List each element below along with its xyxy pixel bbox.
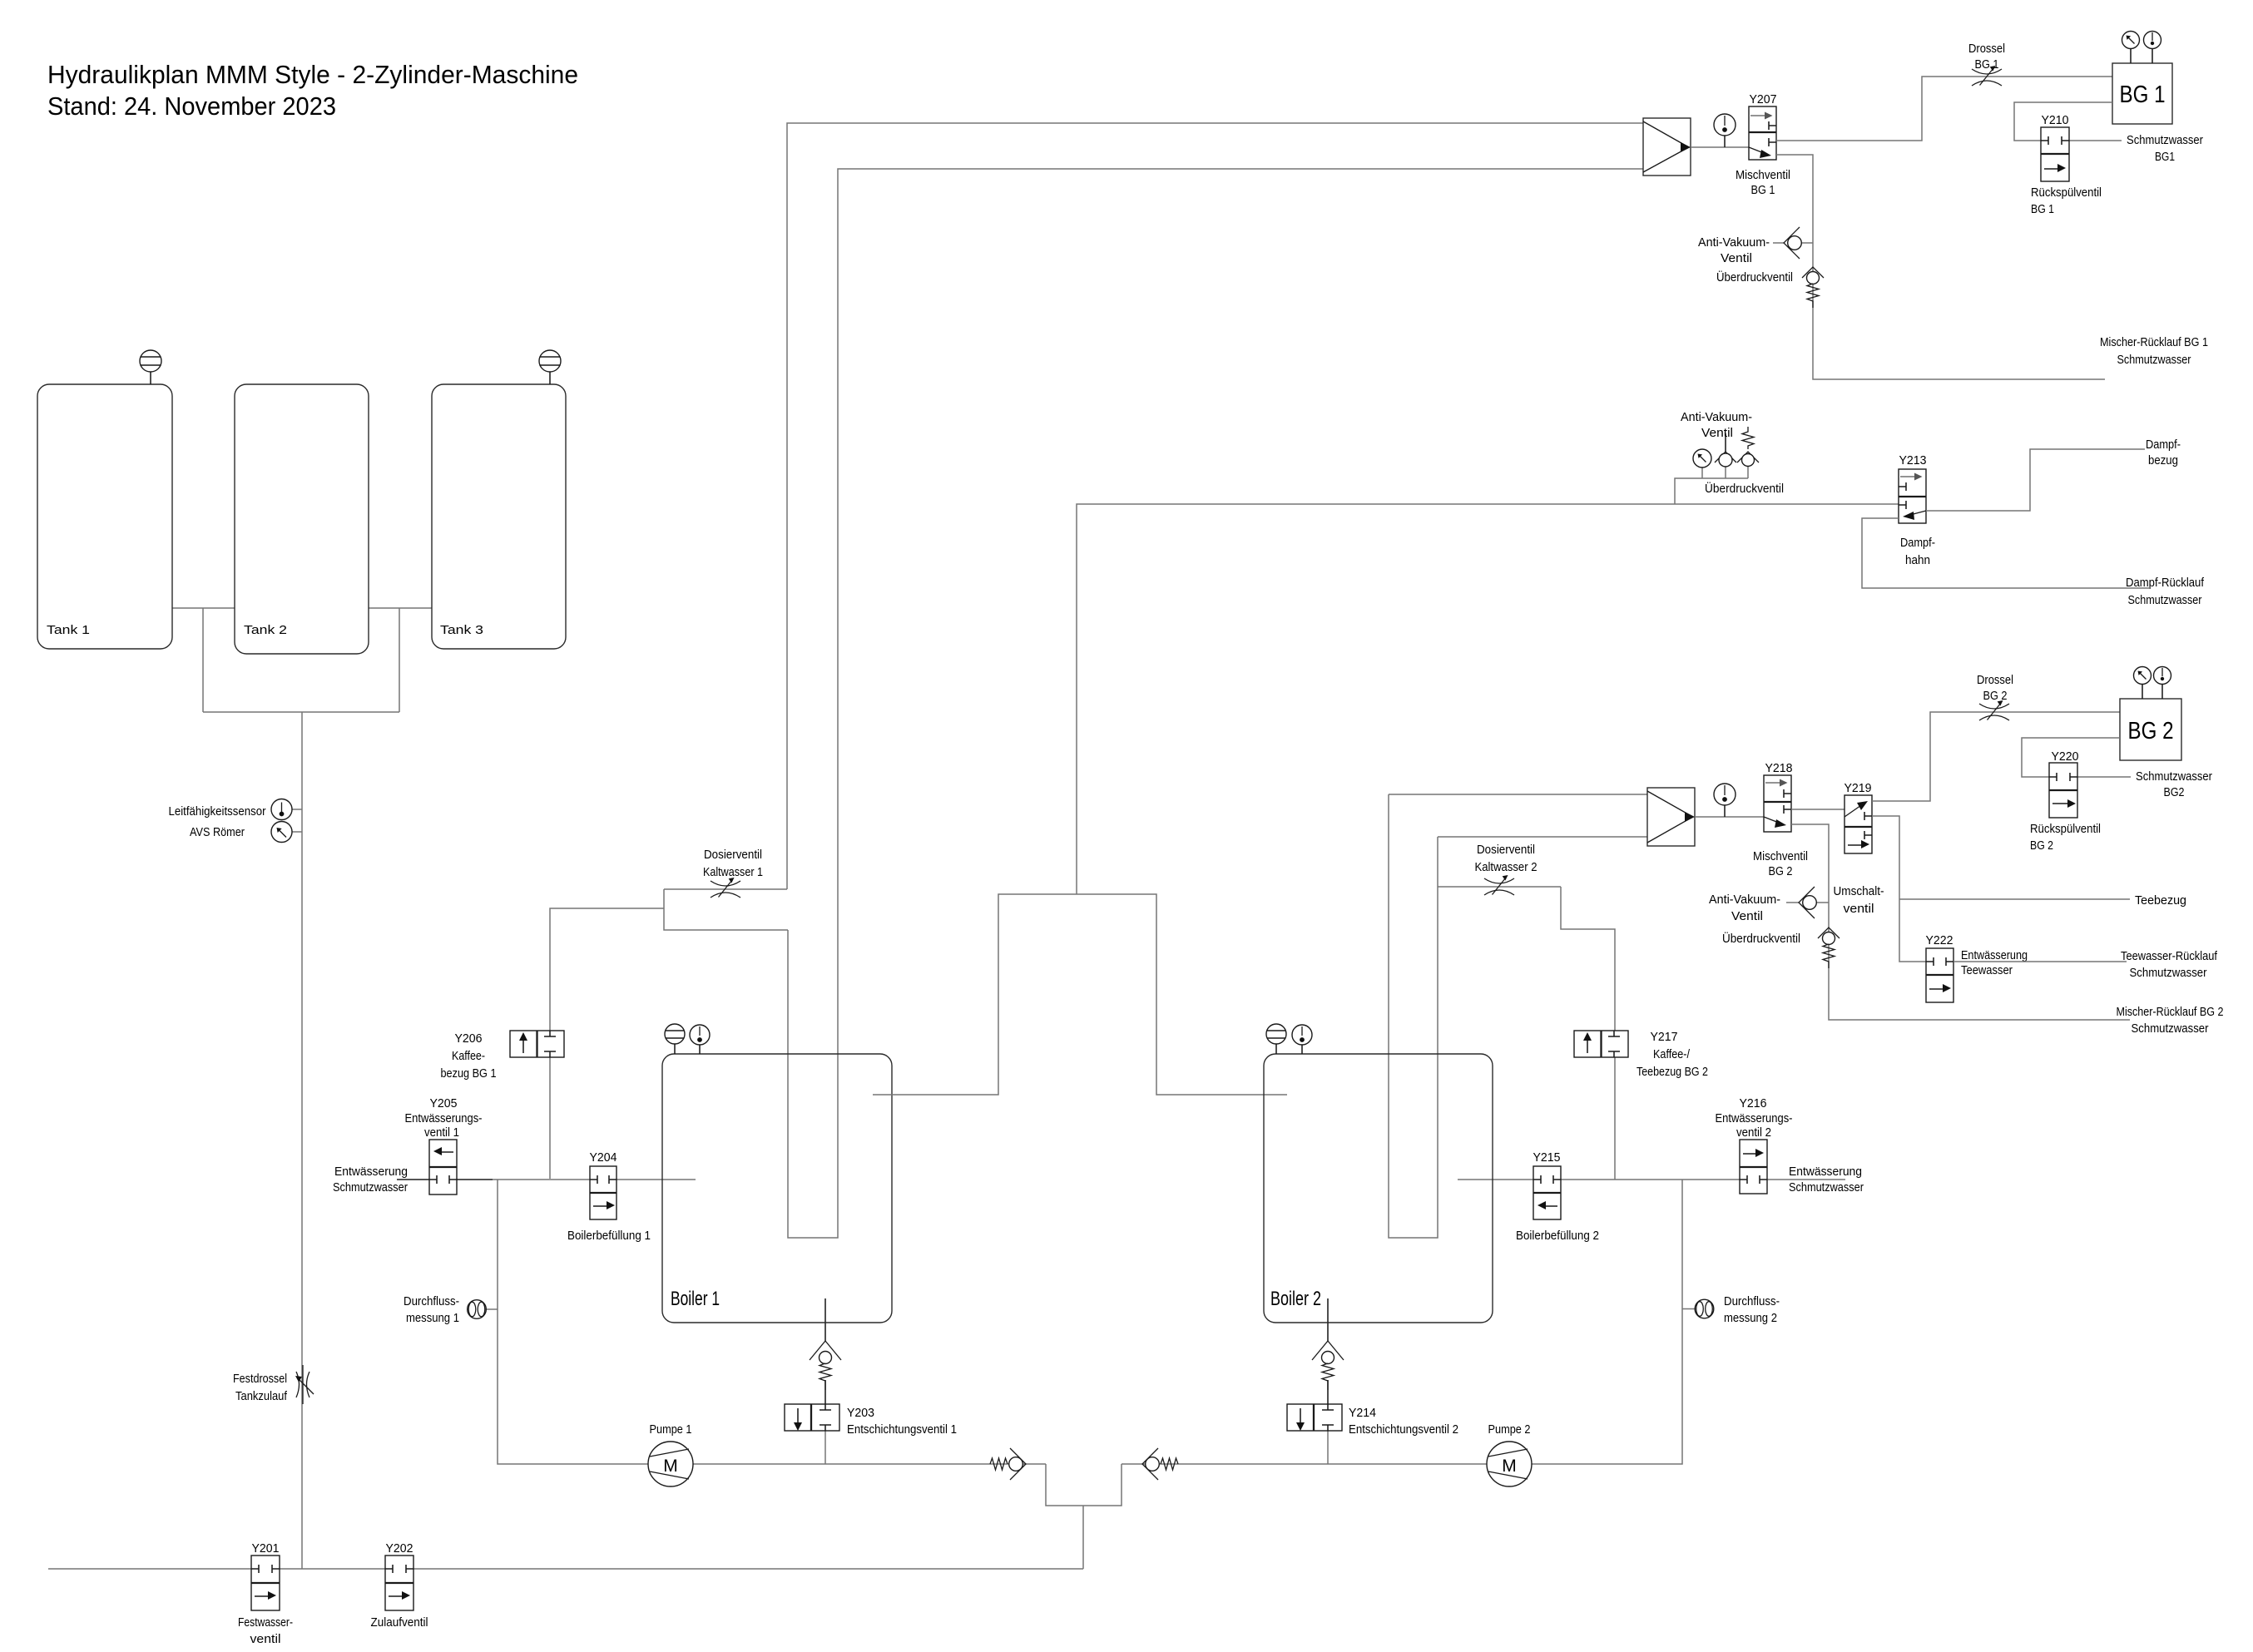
valve Y220 Rueckspuelventil BG 2 xyxy=(2030,750,2101,853)
svg-text:BG 1: BG 1 xyxy=(1975,58,1999,72)
svg-text:Dampf-Rücklauf: Dampf-Rücklauf xyxy=(2126,576,2205,590)
valve Y206 Kaffeebezug BG 1 xyxy=(441,1031,565,1081)
svg-text:Festdrossel: Festdrossel xyxy=(233,1373,287,1386)
svg-text:Y219: Y219 xyxy=(1844,782,1872,795)
wire boiler 2 inner tube xyxy=(1389,794,1438,1238)
relief valve Ueberdruckventil steam xyxy=(1705,427,1784,496)
breather vent tank 3 xyxy=(539,350,561,384)
svg-text:Entschichtungsventil 2: Entschichtungsventil 2 xyxy=(1349,1423,1458,1437)
wire mixer BG2 feed lines xyxy=(1389,794,1647,837)
valve Y213 Dampfhahn xyxy=(1899,454,1935,567)
svg-text:Ventil: Ventil xyxy=(1731,910,1763,923)
svg-text:ventil 1: ventil 1 xyxy=(424,1126,459,1140)
svg-text:Y202: Y202 xyxy=(386,1542,413,1556)
svg-text:hahn: hahn xyxy=(1905,554,1930,567)
svg-text:BG 1: BG 1 xyxy=(1751,184,1775,197)
svg-text:AVS Römer: AVS Römer xyxy=(190,826,245,839)
label Teebezug xyxy=(2135,894,2186,908)
check valve boiler 1 bottom xyxy=(810,1298,841,1390)
wire pump suction left riser xyxy=(498,1180,1046,1464)
label Mischer-Ruecklauf BG 2 Schmutzwasser xyxy=(2117,1006,2224,1036)
svg-text:BG 1: BG 1 xyxy=(2031,203,2054,216)
svg-text:Y213: Y213 xyxy=(1899,454,1927,467)
svg-text:Schmutzwasser: Schmutzwasser xyxy=(2117,354,2191,367)
pump Pumpe 2 xyxy=(1487,1423,1532,1486)
svg-text:Tank 1: Tank 1 xyxy=(47,624,90,637)
svg-text:Schmutzwasser: Schmutzwasser xyxy=(2127,134,2203,147)
svg-text:Überdruckventil: Überdruckventil xyxy=(1716,270,1793,284)
valve Y214 Entschichtungsventil 2 xyxy=(1287,1380,1458,1464)
wire dosing line boiler 2 xyxy=(1438,886,1561,888)
check valve Anti-Vakuum-Ventil BG2 xyxy=(1709,887,1829,923)
svg-text:Schmutzwasser: Schmutzwasser xyxy=(2136,770,2212,784)
svg-text:Drossel: Drossel xyxy=(1968,42,2005,56)
svg-text:ventil: ventil xyxy=(250,1633,281,1646)
svg-text:Dampf-: Dampf- xyxy=(2146,438,2181,452)
svg-text:Überdruckventil: Überdruckventil xyxy=(1705,481,1784,496)
tank Tank 3 xyxy=(432,384,566,649)
wire drain line boiler 2 side xyxy=(1458,1179,1845,1180)
svg-text:Kaffee-: Kaffee- xyxy=(452,1050,485,1063)
svg-text:Y203: Y203 xyxy=(847,1407,874,1420)
wire Y219 to Drossel BG2 xyxy=(1872,712,2120,801)
svg-text:Entwässerungs-: Entwässerungs- xyxy=(405,1112,483,1125)
valve Y210 Rueckspuelventil BG 1 xyxy=(2031,114,2102,216)
throttle Festdrossel Tankzulauf xyxy=(233,1365,314,1404)
boiler Boiler 1 xyxy=(662,1054,892,1323)
wire Y218 to Y219 xyxy=(1791,809,1844,810)
label Entwaesserung Schmutzwasser right xyxy=(1789,1165,1864,1194)
wire drain line boiler 1 side xyxy=(397,1179,696,1180)
svg-text:Kaltwasser 2: Kaltwasser 2 xyxy=(1475,861,1537,874)
svg-text:M: M xyxy=(1502,1457,1517,1476)
svg-text:Mischventil: Mischventil xyxy=(1736,169,1790,182)
svg-text:ventil: ventil xyxy=(1844,903,1874,916)
svg-text:BG 1: BG 1 xyxy=(2120,82,2166,108)
wire bottom supply line xyxy=(48,1568,1083,1570)
tank Tank 2 xyxy=(235,384,369,654)
wire Y206 branch riser xyxy=(550,908,664,1179)
title xyxy=(47,60,578,121)
thermometer mixer BG2 xyxy=(1714,784,1736,817)
svg-text:Schmutzwasser: Schmutzwasser xyxy=(2130,967,2207,980)
svg-text:Überdruckventil: Überdruckventil xyxy=(1722,931,1800,946)
svg-text:BG 2: BG 2 xyxy=(2128,718,2174,744)
svg-text:Anti-Vakuum-: Anti-Vakuum- xyxy=(1681,411,1752,424)
svg-text:bezug: bezug xyxy=(2148,454,2178,467)
wire Y219 to Teebezug and Y222 xyxy=(1872,816,1926,962)
svg-text:Y215: Y215 xyxy=(1533,1151,1561,1165)
valve Y203 Entschichtungsventil 1 xyxy=(785,1380,957,1464)
wire Y218 drain riser xyxy=(1791,824,2130,1020)
svg-text:Schmutzwasser: Schmutzwasser xyxy=(1789,1181,1864,1194)
wire BG1 to Y210 xyxy=(2014,102,2112,141)
thermometer BG1 xyxy=(2144,32,2161,64)
svg-text:Tank 3: Tank 3 xyxy=(440,624,483,637)
wire Y207 drain to Mischer-Ruecklauf BG 1 xyxy=(1776,155,2105,379)
svg-text:Pumpe 2: Pumpe 2 xyxy=(1488,1423,1531,1437)
svg-text:Durchfluss-: Durchfluss- xyxy=(404,1295,459,1308)
svg-text:Dampf-: Dampf- xyxy=(1900,537,1935,550)
svg-text:Stand: 24. November 2023: Stand: 24. November 2023 xyxy=(47,92,336,121)
svg-text:Kaffee-/: Kaffee-/ xyxy=(1653,1048,1691,1061)
svg-text:Y201: Y201 xyxy=(252,1542,280,1556)
svg-text:BG2: BG2 xyxy=(2164,786,2185,799)
valve Y222 Entwaesserung Teewasser xyxy=(1926,934,2028,1002)
svg-text:Dosierventil: Dosierventil xyxy=(1477,843,1535,857)
svg-text:Rückspülventil: Rückspülventil xyxy=(2030,823,2101,836)
svg-text:Ventil: Ventil xyxy=(1701,427,1733,440)
svg-text:BG 2: BG 2 xyxy=(1769,865,1793,878)
wire dosing jog boiler 1 xyxy=(664,123,1643,930)
label BG 1 box xyxy=(2112,63,2172,124)
pressure gauge steam line xyxy=(1693,449,1711,467)
check valve Anti-Vakuum-Ventil BG1 xyxy=(1698,227,1813,265)
steam safety group stand xyxy=(1675,466,1748,504)
pressure gauge BG2 xyxy=(2134,667,2151,700)
svg-text:Schmutzwasser: Schmutzwasser xyxy=(2128,594,2202,607)
check valve Anti-Vakuum-Ventil steam xyxy=(1681,411,1752,467)
wire pump dip junction center xyxy=(1046,1464,1122,1569)
wire Y213 to Dampfbezug xyxy=(1926,449,2145,511)
wire BG2 to Y220 xyxy=(2022,738,2120,777)
svg-text:Boilerbefüllung 1: Boilerbefüllung 1 xyxy=(567,1229,651,1243)
svg-text:Anti-Vakuum-: Anti-Vakuum- xyxy=(1698,236,1770,250)
svg-text:Mischventil: Mischventil xyxy=(1753,850,1808,863)
wire pump line right xyxy=(1122,1180,1682,1464)
svg-text:Entwässerung: Entwässerung xyxy=(1961,949,2028,962)
svg-text:Rückspülventil: Rückspülventil xyxy=(2031,186,2102,200)
mixer BG 1 xyxy=(1643,118,1691,176)
valve Y205 Entwaesserungsventil 1 xyxy=(405,1097,483,1194)
label BG 2 box xyxy=(2120,699,2181,760)
wire boiler 1 inner tube xyxy=(788,169,1643,1238)
svg-text:Pumpe 1: Pumpe 1 xyxy=(650,1423,692,1437)
wire Y207 to Drossel BG1 xyxy=(1776,77,2112,141)
boiler Boiler 2 xyxy=(1264,1054,1493,1323)
svg-text:Entschichtungsventil 1: Entschichtungsventil 1 xyxy=(847,1423,957,1437)
label Dampf-Ruecklauf Schmutzwasser xyxy=(2126,576,2205,607)
label Dampfbezug xyxy=(2146,438,2181,467)
valve Y219 Umschaltventil xyxy=(1834,782,1884,916)
flow meter Durchflussmessung 2 xyxy=(1682,1295,1780,1325)
flow meter Durchflussmessung 1 xyxy=(404,1295,498,1325)
check valve pump 2 outlet xyxy=(1142,1448,1178,1480)
svg-text:Anti-Vakuum-: Anti-Vakuum- xyxy=(1709,893,1780,907)
svg-text:Schmutzwasser: Schmutzwasser xyxy=(2132,1022,2209,1036)
check valve pump 1 outlet xyxy=(990,1448,1026,1480)
svg-text:bezug BG 1: bezug BG 1 xyxy=(441,1067,497,1081)
svg-text:Y217: Y217 xyxy=(1651,1031,1678,1044)
svg-text:Festwasser-: Festwasser- xyxy=(238,1616,293,1630)
svg-text:messung 1: messung 1 xyxy=(406,1312,459,1325)
svg-text:Entwässerung: Entwässerung xyxy=(334,1165,408,1179)
thermometer boiler 2 xyxy=(1292,1025,1312,1054)
svg-text:Hydraulikplan MMM Style - 2-Zy: Hydraulikplan MMM Style - 2-Zylinder-Mas… xyxy=(47,60,578,89)
wire Teebezug line xyxy=(1899,898,2130,900)
svg-text:Ventil: Ventil xyxy=(1721,252,1752,265)
svg-text:Y214: Y214 xyxy=(1349,1407,1376,1420)
svg-text:BG 2: BG 2 xyxy=(1983,690,2008,703)
svg-text:Boiler 1: Boiler 1 xyxy=(671,1288,720,1310)
svg-text:Y222: Y222 xyxy=(1926,934,1953,947)
svg-text:Entwässerung: Entwässerung xyxy=(1789,1165,1862,1179)
svg-text:Entwässerungs-: Entwässerungs- xyxy=(1716,1112,1793,1125)
throttle Dosierventil Kaltwasser 2 xyxy=(1475,843,1537,895)
svg-text:Teebezug BG 2: Teebezug BG 2 xyxy=(1637,1066,1708,1079)
svg-text:Durchfluss-: Durchfluss- xyxy=(1724,1295,1780,1308)
wire mixer BG2 output xyxy=(1695,816,1764,818)
valve Y202 Zulaufventil xyxy=(371,1542,428,1630)
svg-text:Umschalt-: Umschalt- xyxy=(1834,885,1884,898)
svg-text:Y206: Y206 xyxy=(455,1032,483,1046)
wire Y210 to Schmutzwasser BG1 xyxy=(2069,140,2122,141)
valve Y217 Kaffee Teebezug BG 2 xyxy=(1574,1031,1708,1079)
wire tank interconnect and feed manifold xyxy=(172,608,432,1569)
wire Y222 to Teewasser-Ruecklauf xyxy=(1953,961,2127,962)
throttle Drossel BG 1 xyxy=(1968,42,2005,86)
valve Y216 Entwaesserungsventil 2 xyxy=(1716,1097,1793,1194)
svg-text:Teewasser: Teewasser xyxy=(1961,964,2013,977)
svg-text:Teewasser-Rücklauf: Teewasser-Rücklauf xyxy=(2121,950,2218,963)
svg-text:Drossel: Drossel xyxy=(1977,674,2013,687)
label Schmutzwasser BG2 xyxy=(2136,770,2212,799)
check valve boiler 2 bottom xyxy=(1312,1298,1344,1390)
breather vent boiler 2 xyxy=(1266,1024,1286,1054)
label Mischer-Ruecklauf BG 1 Schmutzwasser xyxy=(2100,336,2208,367)
label Schmutzwasser BG1 xyxy=(2127,134,2203,164)
relief valve Ueberdruckventil BG2 xyxy=(1722,927,1840,968)
wire Y217 branch riser xyxy=(1561,887,1615,1180)
svg-text:Mischer-Rücklauf BG 2: Mischer-Rücklauf BG 2 xyxy=(2117,1006,2224,1019)
valve Y218 Mischventil BG 2 xyxy=(1753,762,1808,878)
wire steam collector xyxy=(873,504,1899,1095)
relief valve Ueberdruckventil BG1 xyxy=(1716,267,1824,308)
thermometer boiler 1 xyxy=(690,1025,710,1054)
svg-text:Y220: Y220 xyxy=(2052,750,2079,764)
svg-text:BG 2: BG 2 xyxy=(2030,839,2053,853)
svg-text:Y216: Y216 xyxy=(1740,1097,1767,1110)
svg-text:Zulaufventil: Zulaufventil xyxy=(371,1616,428,1630)
valve Y201 Festwasserventil xyxy=(238,1542,293,1646)
svg-text:Y204: Y204 xyxy=(590,1151,617,1165)
svg-text:Kaltwasser 1: Kaltwasser 1 xyxy=(703,866,763,879)
svg-text:Y210: Y210 xyxy=(2042,114,2069,127)
svg-text:Leitfähigkeitssensor: Leitfähigkeitssensor xyxy=(169,805,266,819)
svg-text:Boilerbefüllung 2: Boilerbefüllung 2 xyxy=(1516,1229,1599,1243)
valve Y204 Boilerbefuellung 1 xyxy=(567,1151,651,1243)
svg-text:Mischer-Rücklauf BG 1: Mischer-Rücklauf BG 1 xyxy=(2100,336,2208,349)
sensor Leitfaehigkeitssensor AVS Roemer xyxy=(169,799,303,843)
svg-text:Tankzulauf: Tankzulauf xyxy=(235,1390,288,1403)
pump Pumpe 1 xyxy=(648,1423,693,1486)
mixer BG 2 xyxy=(1647,788,1695,846)
throttle Dosierventil Kaltwasser 1 xyxy=(703,848,763,898)
tank Tank 1 xyxy=(37,384,172,649)
wire Y213 return to Dampf-Ruecklauf xyxy=(1862,518,2149,588)
svg-text:Schmutzwasser: Schmutzwasser xyxy=(333,1181,408,1194)
svg-text:Y218: Y218 xyxy=(1765,762,1793,775)
svg-text:ventil 2: ventil 2 xyxy=(1736,1126,1771,1140)
svg-text:Teebezug: Teebezug xyxy=(2135,894,2186,908)
svg-text:messung 2: messung 2 xyxy=(1724,1312,1777,1325)
valve Y215 Boilerbefuellung 2 xyxy=(1516,1151,1599,1243)
valve Y207 Mischventil BG 1 xyxy=(1736,93,1790,197)
svg-text:Boiler 2: Boiler 2 xyxy=(1270,1288,1321,1310)
svg-text:Y205: Y205 xyxy=(430,1097,458,1110)
breather vent tank 1 xyxy=(140,350,161,384)
svg-text:Y207: Y207 xyxy=(1750,93,1777,106)
svg-text:Dosierventil: Dosierventil xyxy=(704,848,762,862)
wire mixer BG1 output xyxy=(1691,146,1749,148)
label Teewasser-Ruecklauf Schmutzwasser xyxy=(2121,950,2218,980)
svg-text:Tank 2: Tank 2 xyxy=(244,624,287,637)
label Entwaesserung Schmutzwasser left xyxy=(333,1165,408,1194)
breather vent boiler 1 xyxy=(665,1024,685,1054)
svg-text:BG1: BG1 xyxy=(2155,151,2175,164)
pressure gauge BG1 xyxy=(2122,32,2140,64)
wire Y220 to Schmutzwasser BG2 xyxy=(2077,776,2131,778)
thermometer BG2 xyxy=(2154,667,2171,700)
thermometer mixer BG1 xyxy=(1714,114,1736,147)
svg-text:M: M xyxy=(663,1457,678,1476)
throttle Drossel BG 2 xyxy=(1977,674,2013,720)
